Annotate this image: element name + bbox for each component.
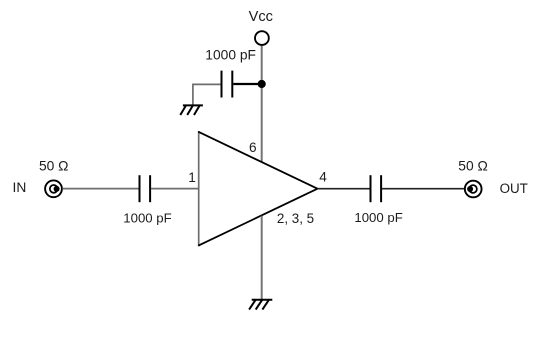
svg-text:IN: IN	[13, 180, 27, 195]
svg-text:OUT: OUT	[500, 181, 528, 196]
svg-text:1000 pF: 1000 pF	[354, 210, 402, 225]
junction on Vcc wire	[258, 80, 266, 88]
svg-text:1: 1	[188, 170, 196, 185]
wire IN connector to input capacitor	[62, 188, 138, 190]
wire input capacitor to pin 1	[151, 188, 199, 190]
svg-text:Vcc: Vcc	[249, 9, 273, 25]
Vcc terminal	[255, 31, 269, 45]
value label 1000 pF (bypass capacitor)	[205, 47, 256, 62]
pin number 6	[249, 140, 257, 155]
value label 1000 pF (input capacitor)	[123, 211, 171, 226]
50 ohm label (input)	[39, 159, 69, 174]
svg-text:1000 pF: 1000 pF	[205, 47, 256, 62]
pin number 4	[319, 170, 327, 185]
IN label	[13, 180, 27, 195]
svg-text:50 Ω: 50 Ω	[458, 158, 488, 173]
capacitor C1 1000 pF (bypass)	[222, 71, 233, 98]
svg-text:50 Ω: 50 Ω	[39, 159, 69, 174]
wire bypass capacitor to Vcc junction	[233, 83, 261, 85]
capacitor C3 1000 pF (output)	[371, 175, 382, 202]
wire pin 4 to output capacitor	[318, 188, 370, 190]
op-amp U1 (amplifier triangle)	[198, 131, 317, 246]
wire pins 2,3,5 to ground	[261, 216, 263, 299]
svg-text:6: 6	[249, 140, 257, 155]
pin numbers 2, 3, 5	[277, 211, 314, 226]
pin number 1	[188, 170, 196, 185]
50 ohm label (output)	[458, 158, 488, 173]
connector J1 IN (coaxial)	[45, 180, 62, 197]
capacitor C2 1000 pF (input)	[140, 175, 151, 202]
wire bypass capacitor to ground	[193, 84, 221, 104]
wire output capacitor to OUT connector	[382, 188, 464, 190]
OUT label	[500, 181, 528, 196]
node Vcc label	[249, 9, 273, 25]
ground (amplifier common pins)	[249, 300, 272, 310]
svg-text:1000 pF: 1000 pF	[123, 211, 171, 226]
ground (bypass capacitor)	[180, 105, 203, 115]
value label 1000 pF (output capacitor)	[354, 210, 402, 225]
svg-text:4: 4	[319, 170, 327, 185]
svg-text:2, 3, 5: 2, 3, 5	[277, 211, 314, 226]
wire Vcc terminal to amplifier pin 6	[261, 46, 263, 162]
connector J2 OUT (coaxial)	[465, 181, 482, 198]
